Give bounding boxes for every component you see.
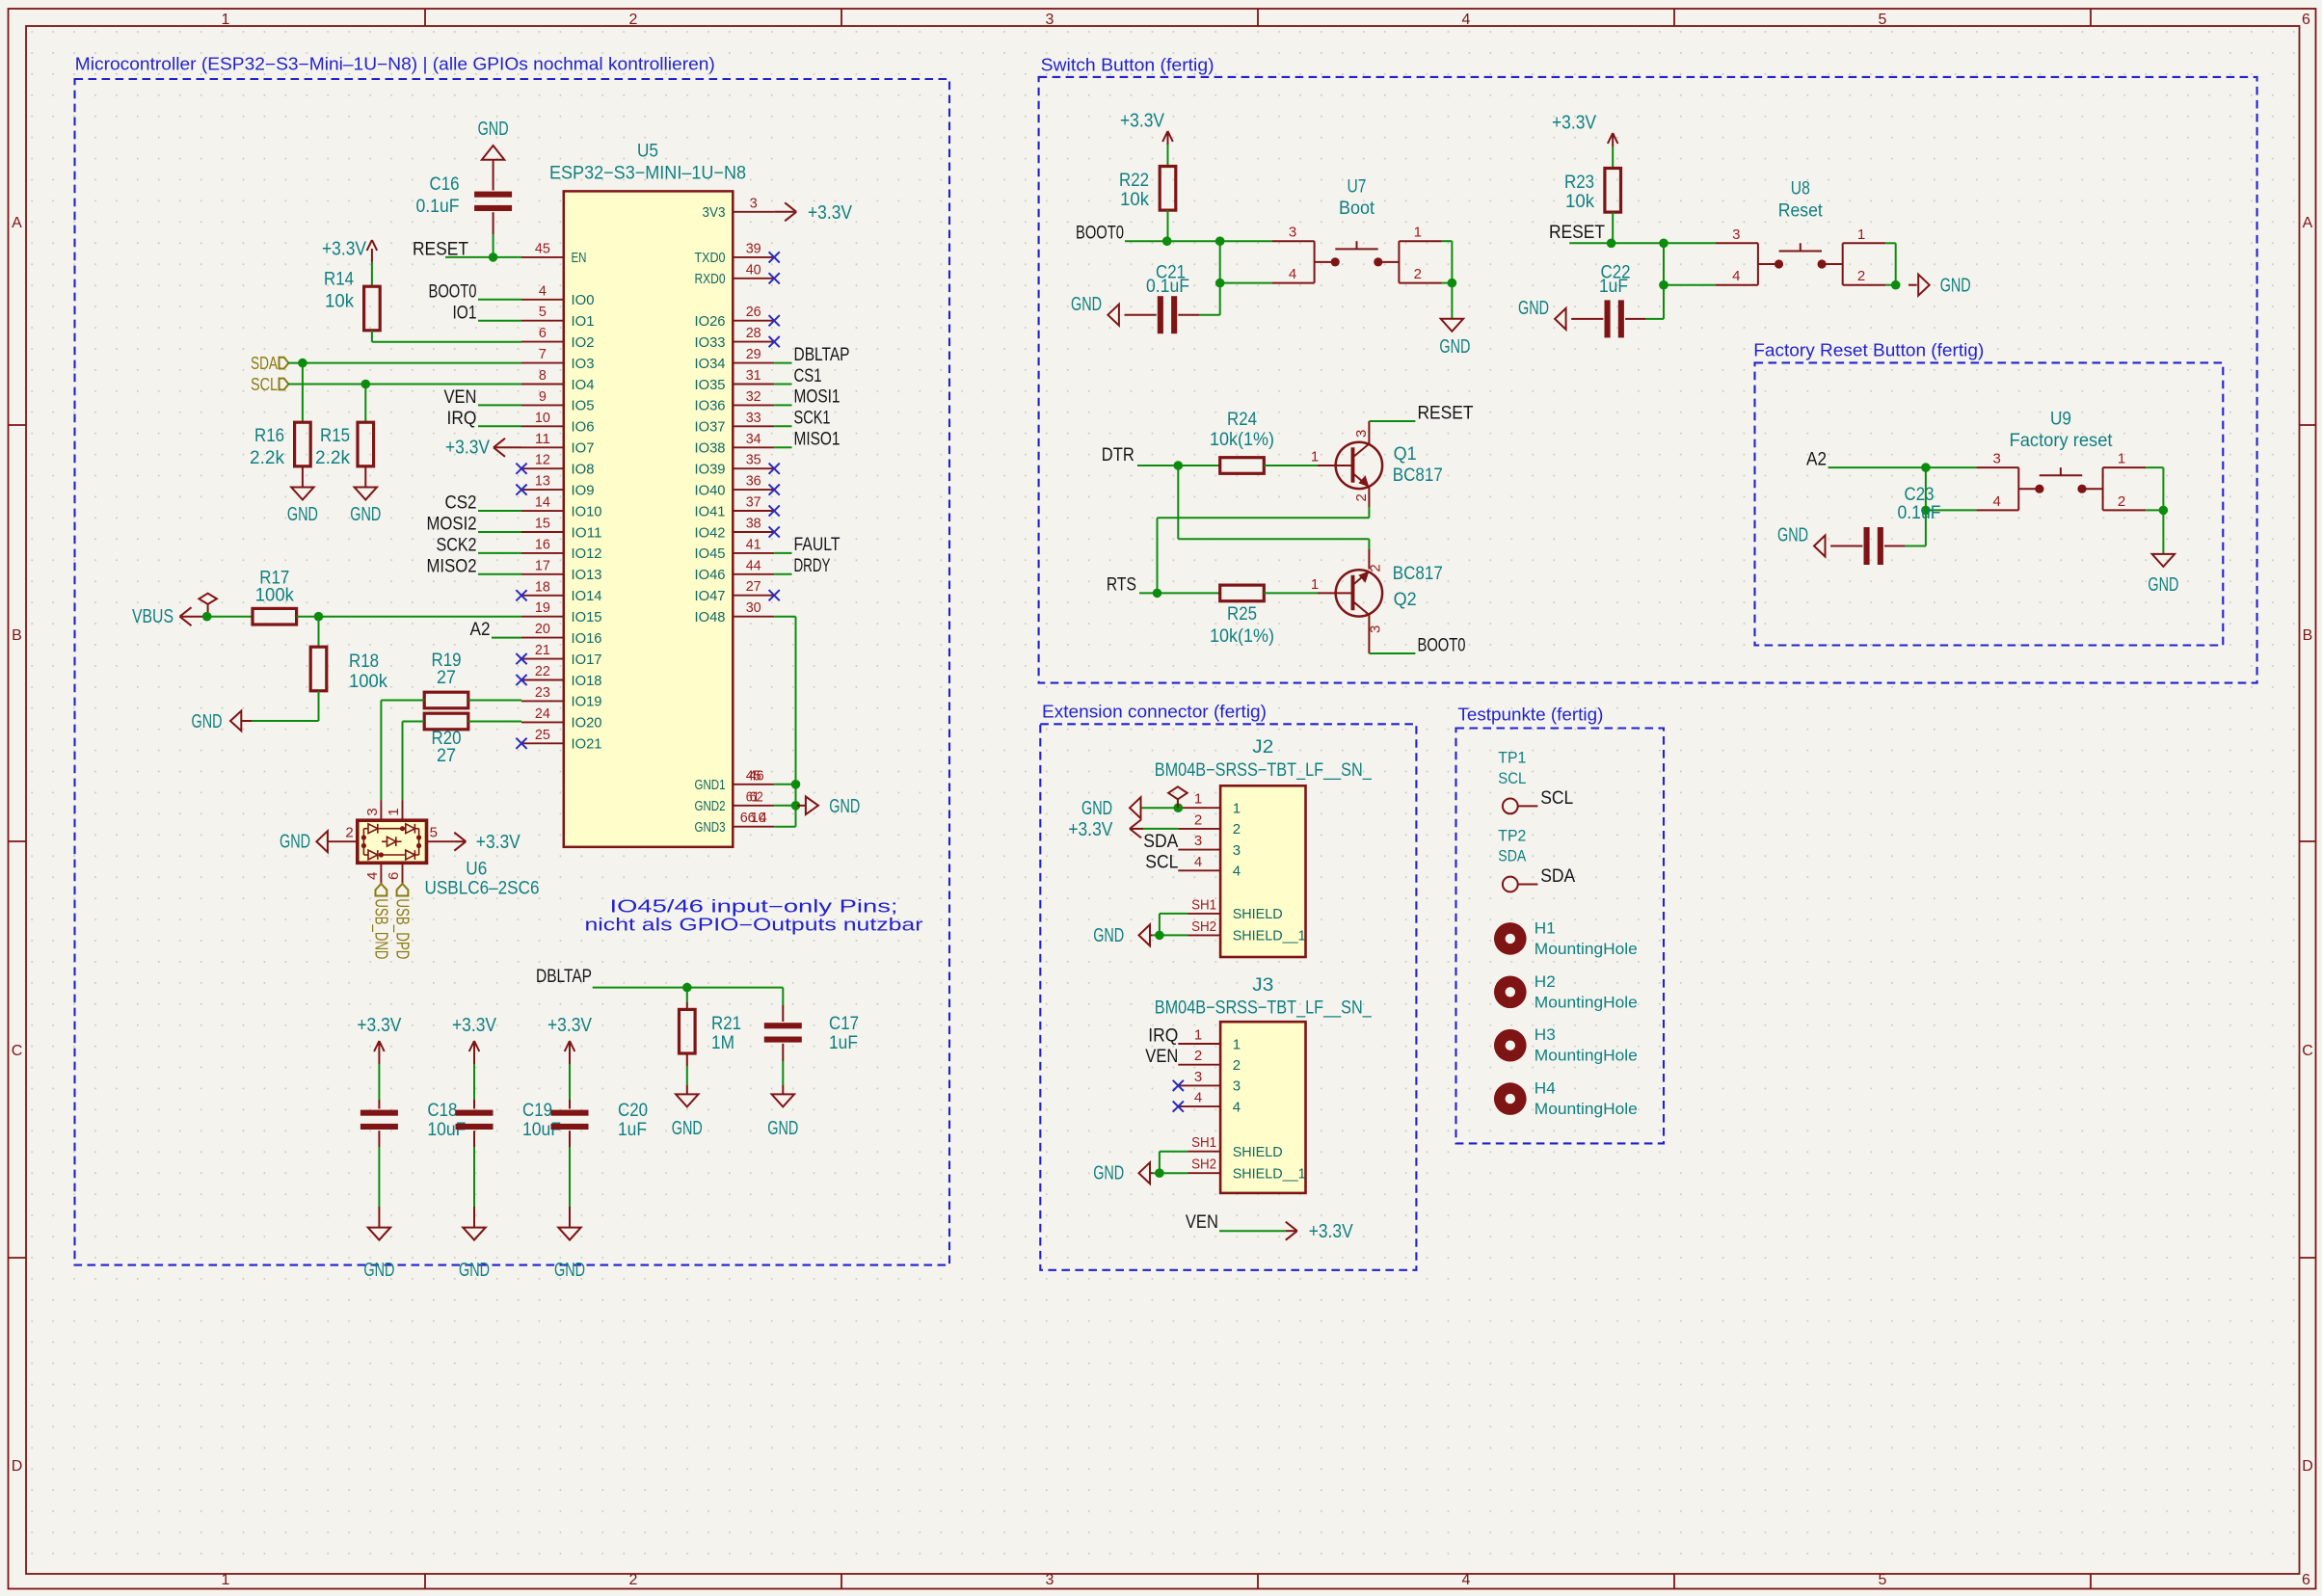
- svg-text:IO21: IO21: [572, 736, 602, 753]
- svg-text:3: 3: [364, 808, 381, 815]
- svg-text:DRDY: DRDY: [794, 556, 831, 576]
- svg-text:MountingHole: MountingHole: [1535, 1100, 1638, 1118]
- svg-text:21: 21: [535, 642, 550, 658]
- svg-text:GND: GND: [672, 1118, 703, 1139]
- svg-text:GND: GND: [1071, 294, 1102, 315]
- svg-text:USBLC6‒2SC6: USBLC6‒2SC6: [425, 879, 540, 899]
- svg-text:8: 8: [539, 367, 547, 384]
- svg-text:GND: GND: [280, 832, 310, 853]
- svg-text:CS2: CS2: [445, 493, 477, 514]
- svg-text:IRQ: IRQ: [1148, 1025, 1178, 1046]
- svg-text:19: 19: [535, 599, 550, 616]
- svg-text:3: 3: [1993, 451, 2001, 467]
- svg-text:RESET: RESET: [1549, 223, 1605, 243]
- svg-text:41: 41: [746, 536, 761, 552]
- svg-text:1: 1: [1857, 226, 1865, 243]
- svg-text:IO39: IO39: [695, 462, 726, 478]
- svg-text:33: 33: [746, 410, 761, 426]
- svg-text:10k(1%): 10k(1%): [1210, 430, 1274, 450]
- svg-text:IO16: IO16: [572, 630, 602, 647]
- svg-text:H3: H3: [1535, 1025, 1556, 1044]
- svg-text:13: 13: [535, 473, 550, 490]
- svg-text:R15: R15: [320, 426, 350, 446]
- svg-text:Extension connector (fertig): Extension connector (fertig): [1042, 703, 1267, 722]
- svg-text:1: 1: [1414, 225, 1422, 241]
- svg-text:10uF: 10uF: [522, 1120, 561, 1140]
- svg-text:IO18: IO18: [572, 673, 602, 689]
- svg-text:Factory reset: Factory reset: [2010, 431, 2114, 451]
- svg-text:GND: GND: [767, 1118, 798, 1139]
- svg-text:IO20: IO20: [572, 715, 602, 731]
- svg-text:R22: R22: [1119, 171, 1149, 191]
- svg-text:4: 4: [1289, 266, 1296, 282]
- svg-text:BC817: BC817: [1393, 465, 1443, 486]
- svg-text:10uF: 10uF: [427, 1120, 466, 1140]
- svg-text:3: 3: [1194, 833, 1202, 849]
- svg-text:R24: R24: [1227, 410, 1257, 430]
- svg-text:SCL: SCL: [1540, 788, 1573, 809]
- svg-text:BOOT0: BOOT0: [429, 281, 477, 302]
- svg-text:37: 37: [746, 494, 761, 511]
- svg-text:2: 2: [1233, 821, 1241, 838]
- svg-text:10: 10: [535, 410, 550, 426]
- svg-text:MISO1: MISO1: [794, 430, 841, 450]
- svg-text:TP1: TP1: [1498, 749, 1526, 767]
- svg-text:2: 2: [2118, 493, 2125, 510]
- svg-text:C23: C23: [1905, 485, 1935, 505]
- svg-text:6: 6: [539, 325, 547, 341]
- svg-text:IO13: IO13: [572, 567, 602, 583]
- svg-text:6: 6: [386, 872, 402, 880]
- svg-text:SH2: SH2: [1191, 918, 1216, 935]
- svg-text:BC817: BC817: [1393, 564, 1443, 584]
- svg-text:A2: A2: [470, 620, 491, 640]
- svg-text:IO8: IO8: [572, 462, 595, 478]
- svg-text:U6: U6: [466, 860, 487, 880]
- svg-text:SCL: SCL: [1145, 853, 1178, 873]
- svg-text:GND1: GND1: [695, 777, 726, 793]
- svg-text:10k: 10k: [325, 292, 354, 312]
- svg-text:5: 5: [430, 825, 438, 841]
- svg-text:34: 34: [746, 431, 761, 447]
- svg-text:FAULT: FAULT: [794, 535, 841, 555]
- svg-text:R16: R16: [254, 426, 284, 446]
- svg-text:1: 1: [222, 1572, 230, 1588]
- svg-text:0.1uF: 0.1uF: [416, 197, 460, 217]
- svg-text:GND: GND: [192, 711, 223, 732]
- svg-text:2: 2: [1353, 493, 1370, 501]
- svg-text:C16: C16: [430, 174, 460, 195]
- svg-text:2: 2: [1368, 564, 1384, 572]
- svg-text:12: 12: [535, 452, 550, 468]
- svg-text:GND: GND: [1777, 525, 1808, 546]
- svg-text:31: 31: [746, 367, 761, 384]
- svg-text:3: 3: [750, 195, 758, 211]
- svg-text:Q1: Q1: [1394, 444, 1417, 465]
- svg-text:DTR: DTR: [1102, 445, 1134, 465]
- svg-text:62: 62: [750, 788, 763, 805]
- svg-text:+3.3V: +3.3V: [445, 437, 491, 458]
- svg-text:10k(1%): 10k(1%): [1210, 626, 1274, 647]
- svg-text:GND: GND: [363, 1260, 394, 1281]
- svg-text:15: 15: [535, 516, 550, 532]
- svg-text:4: 4: [364, 872, 381, 880]
- svg-text:TP2: TP2: [1498, 826, 1526, 844]
- svg-text:IO47: IO47: [695, 588, 726, 604]
- svg-text:R23: R23: [1564, 173, 1594, 193]
- svg-text:1: 1: [1311, 576, 1319, 593]
- svg-text:4: 4: [539, 282, 547, 299]
- svg-text:Boot: Boot: [1339, 199, 1375, 219]
- svg-text:14: 14: [535, 494, 550, 511]
- svg-text:SHIELD__1: SHIELD__1: [1233, 928, 1306, 944]
- svg-text:U7: U7: [1348, 176, 1367, 197]
- svg-text:Switch Button (fertig): Switch Button (fertig): [1041, 56, 1214, 75]
- svg-text:IO1: IO1: [453, 303, 477, 323]
- svg-text:2: 2: [1194, 811, 1202, 828]
- svg-text:2.2k: 2.2k: [315, 448, 350, 468]
- svg-text:0.1uF: 0.1uF: [1898, 503, 1941, 523]
- svg-text:4: 4: [1233, 1099, 1241, 1115]
- svg-text:1: 1: [222, 12, 230, 28]
- svg-text:C19: C19: [522, 1101, 552, 1121]
- svg-text:Factory Reset Button (fertig): Factory Reset Button (fertig): [1753, 341, 1984, 360]
- svg-text:GND: GND: [1940, 276, 1971, 297]
- svg-text:4: 4: [1462, 1572, 1471, 1588]
- svg-text:+3.3V: +3.3V: [322, 239, 367, 260]
- svg-text:44: 44: [746, 557, 761, 573]
- svg-text:IO10: IO10: [572, 503, 602, 519]
- svg-text:GND: GND: [1093, 1163, 1124, 1184]
- svg-text:IO40: IO40: [695, 482, 726, 498]
- svg-text:nicht als GPIO−Outputs nutzbar: nicht als GPIO−Outputs nutzbar: [585, 916, 923, 935]
- svg-text:C18: C18: [427, 1101, 457, 1121]
- svg-text:C17: C17: [829, 1014, 859, 1034]
- svg-text:4: 4: [1233, 864, 1241, 880]
- svg-text:9: 9: [539, 388, 547, 405]
- svg-text:IO48: IO48: [695, 609, 726, 625]
- svg-text:GND: GND: [478, 119, 509, 140]
- svg-text:IO17: IO17: [572, 652, 602, 668]
- svg-text:D: D: [2302, 1458, 2313, 1475]
- svg-text:IRQ: IRQ: [447, 409, 477, 429]
- svg-text:IO14: IO14: [572, 588, 602, 604]
- svg-text:MountingHole: MountingHole: [1535, 940, 1638, 958]
- svg-text:27: 27: [437, 668, 456, 688]
- svg-text:H2: H2: [1535, 972, 1556, 991]
- svg-text:100k: 100k: [349, 672, 387, 692]
- svg-text:6: 6: [2302, 12, 2310, 28]
- svg-text:+3.3V: +3.3V: [476, 832, 521, 853]
- svg-text:RESET: RESET: [1418, 404, 1474, 424]
- svg-text:IO42: IO42: [695, 524, 726, 541]
- svg-text:1: 1: [1194, 791, 1202, 808]
- svg-text:5: 5: [1879, 1572, 1887, 1588]
- svg-text:2.2k: 2.2k: [250, 448, 284, 468]
- svg-text:BM04B−SRSS−TBT_LF__SN_: BM04B−SRSS−TBT_LF__SN_: [1155, 998, 1372, 1019]
- svg-text:MountingHole: MountingHole: [1535, 993, 1638, 1011]
- svg-text:+3.3V: +3.3V: [357, 1015, 402, 1036]
- svg-text:SDA: SDA: [251, 354, 278, 373]
- svg-text:IO1: IO1: [572, 313, 595, 330]
- svg-text:3: 3: [1368, 625, 1384, 633]
- svg-text:GND: GND: [554, 1260, 585, 1281]
- svg-text:39: 39: [746, 240, 761, 256]
- svg-text:1uF: 1uF: [829, 1033, 858, 1053]
- svg-text:R18: R18: [349, 652, 379, 672]
- svg-text:2: 2: [1194, 1048, 1202, 1064]
- svg-text:IO0: IO0: [572, 292, 595, 308]
- svg-text:D: D: [12, 1458, 23, 1475]
- svg-text:USB_DPD: USB_DPD: [392, 898, 413, 959]
- svg-text:RXD0: RXD0: [695, 271, 726, 287]
- svg-text:100k: 100k: [255, 586, 294, 606]
- svg-text:GND: GND: [1081, 798, 1112, 819]
- svg-text:IO6: IO6: [572, 419, 595, 436]
- svg-text:32: 32: [746, 388, 761, 405]
- svg-text:1: 1: [386, 808, 402, 815]
- svg-text:IO37: IO37: [695, 419, 726, 436]
- svg-text:SH2: SH2: [1191, 1157, 1216, 1173]
- svg-text:IO38: IO38: [695, 440, 726, 457]
- svg-text:U8: U8: [1791, 178, 1810, 199]
- svg-text:4: 4: [1194, 1090, 1202, 1106]
- svg-text:MOSI1: MOSI1: [794, 387, 841, 408]
- svg-text:+3.3V: +3.3V: [808, 202, 853, 224]
- svg-text:U5: U5: [637, 142, 658, 162]
- svg-text:MISO2: MISO2: [427, 556, 477, 576]
- svg-text:GND: GND: [1518, 298, 1549, 319]
- svg-text:IO15: IO15: [572, 609, 602, 625]
- svg-text:7: 7: [539, 346, 547, 362]
- svg-text:IO7: IO7: [572, 440, 595, 457]
- svg-text:VEN: VEN: [444, 387, 477, 408]
- svg-text:H4: H4: [1535, 1079, 1556, 1098]
- svg-text:Q2: Q2: [1394, 590, 1417, 610]
- svg-text:C: C: [2302, 1043, 2313, 1059]
- svg-text:IO26: IO26: [695, 313, 726, 330]
- svg-text:6: 6: [2302, 1572, 2310, 1588]
- svg-text:IO9: IO9: [572, 482, 595, 498]
- svg-text:MOSI2: MOSI2: [427, 515, 477, 535]
- svg-text:Reset: Reset: [1778, 200, 1824, 221]
- svg-text:26: 26: [746, 304, 761, 320]
- svg-text:USB_DND: USB_DND: [371, 898, 391, 959]
- svg-text:IO11: IO11: [572, 524, 602, 541]
- svg-text:R14: R14: [324, 270, 354, 290]
- svg-text:3: 3: [1233, 842, 1241, 859]
- svg-text:IO45: IO45: [695, 545, 726, 562]
- svg-text:C20: C20: [618, 1101, 648, 1121]
- svg-text:SDA: SDA: [1143, 832, 1178, 852]
- svg-text:24: 24: [535, 705, 550, 722]
- svg-text:4: 4: [1194, 854, 1202, 870]
- svg-text:17: 17: [535, 557, 550, 573]
- svg-text:B: B: [2303, 627, 2313, 644]
- svg-text:1: 1: [1194, 1027, 1202, 1044]
- svg-text:3: 3: [1233, 1078, 1241, 1095]
- svg-text:IO19: IO19: [572, 694, 602, 710]
- svg-text:A2: A2: [1806, 449, 1827, 469]
- svg-text:2: 2: [629, 1572, 638, 1588]
- svg-text:2: 2: [629, 12, 638, 28]
- svg-text:0.1uF: 0.1uF: [1146, 277, 1189, 297]
- svg-text:3: 3: [1046, 12, 1054, 28]
- svg-text:4: 4: [1732, 268, 1740, 284]
- svg-text:SHIELD__1: SHIELD__1: [1233, 1166, 1306, 1183]
- svg-text:CS1: CS1: [794, 366, 822, 386]
- svg-text:+3.3V: +3.3V: [1309, 1221, 1354, 1242]
- svg-text:SHIELD: SHIELD: [1233, 906, 1283, 922]
- svg-text:B: B: [12, 627, 22, 644]
- svg-text:27: 27: [746, 578, 761, 595]
- svg-text:A: A: [2303, 215, 2313, 231]
- svg-text:IO5: IO5: [572, 398, 595, 414]
- svg-text:J3: J3: [1252, 975, 1273, 996]
- svg-text:4: 4: [760, 810, 767, 826]
- svg-text:IO34: IO34: [695, 356, 726, 372]
- svg-text:Testpunkte (fertig): Testpunkte (fertig): [1457, 705, 1603, 725]
- svg-text:IO45/46 input−only Pins;: IO45/46 input−only Pins;: [610, 897, 898, 917]
- svg-text:BM04B−SRSS−TBT_LF__SN_: BM04B−SRSS−TBT_LF__SN_: [1155, 760, 1372, 781]
- svg-text:3V3: 3V3: [703, 204, 726, 221]
- svg-text:2: 2: [1857, 268, 1865, 284]
- svg-text:DBLTAP: DBLTAP: [794, 345, 850, 365]
- svg-text:SH1: SH1: [1191, 1134, 1216, 1151]
- svg-text:35: 35: [746, 452, 761, 468]
- svg-text:VBUS: VBUS: [132, 606, 173, 627]
- svg-text:20: 20: [535, 621, 550, 637]
- svg-text:3: 3: [1194, 1069, 1202, 1085]
- svg-text:IO35: IO35: [695, 377, 726, 393]
- svg-text:Microcontroller (ESP32−S3−Mini: Microcontroller (ESP32−S3−Mini‒1U−N8) | …: [75, 55, 715, 74]
- svg-text:RTS: RTS: [1107, 575, 1136, 596]
- svg-text:46: 46: [749, 767, 764, 784]
- svg-text:GND: GND: [2148, 574, 2178, 596]
- svg-text:10k: 10k: [1120, 190, 1149, 210]
- svg-text:SCL: SCL: [251, 375, 278, 394]
- svg-text:10k: 10k: [1565, 192, 1594, 212]
- svg-text:GND: GND: [1093, 925, 1124, 946]
- svg-text:BOOT0: BOOT0: [1418, 636, 1466, 656]
- svg-text:SHIELD: SHIELD: [1233, 1144, 1283, 1160]
- svg-text:SH1: SH1: [1191, 896, 1216, 913]
- svg-text:+3.3V: +3.3V: [1068, 819, 1113, 840]
- svg-text:2: 2: [1233, 1057, 1241, 1074]
- svg-text:3: 3: [1289, 225, 1296, 241]
- svg-text:1: 1: [1233, 1036, 1241, 1052]
- svg-text:EN: EN: [572, 250, 587, 266]
- svg-text:TXD0: TXD0: [695, 250, 726, 266]
- svg-text:IO36: IO36: [695, 398, 726, 414]
- svg-text:28: 28: [746, 325, 761, 341]
- svg-text:23: 23: [535, 684, 550, 701]
- svg-text:BOOT0: BOOT0: [1076, 224, 1124, 244]
- svg-text:3: 3: [1353, 430, 1370, 438]
- svg-text:22: 22: [535, 663, 550, 679]
- svg-text:VEN: VEN: [1145, 1047, 1178, 1067]
- svg-text:GND: GND: [1439, 336, 1470, 358]
- svg-text:+3.3V: +3.3V: [1120, 111, 1165, 132]
- svg-text:+3.3V: +3.3V: [547, 1015, 593, 1036]
- svg-text:36: 36: [746, 473, 761, 490]
- svg-text:GND: GND: [287, 504, 318, 525]
- svg-text:40: 40: [746, 261, 761, 278]
- svg-text:GND: GND: [459, 1260, 490, 1281]
- svg-text:4: 4: [1462, 12, 1471, 28]
- svg-text:IO2: IO2: [572, 334, 595, 351]
- svg-text:1: 1: [2118, 451, 2125, 467]
- svg-text:25: 25: [535, 727, 550, 743]
- svg-text:R25: R25: [1227, 604, 1257, 625]
- svg-text:IO3: IO3: [572, 356, 595, 372]
- svg-text:SDA: SDA: [1498, 847, 1527, 865]
- svg-text:MountingHole: MountingHole: [1535, 1047, 1638, 1065]
- svg-text:38: 38: [746, 516, 761, 532]
- svg-text:IO4: IO4: [572, 377, 595, 393]
- svg-text:5: 5: [1879, 12, 1887, 28]
- svg-text:SCK1: SCK1: [794, 409, 831, 429]
- svg-text:5: 5: [539, 304, 547, 320]
- svg-text:18: 18: [535, 578, 550, 595]
- svg-text:C: C: [12, 1043, 23, 1059]
- svg-text:DBLTAP: DBLTAP: [536, 967, 592, 987]
- svg-text:30: 30: [746, 599, 761, 616]
- svg-text:4: 4: [1993, 493, 2001, 510]
- svg-text:J2: J2: [1252, 737, 1273, 758]
- svg-text:SCK2: SCK2: [437, 535, 477, 555]
- svg-text:16: 16: [535, 536, 550, 552]
- svg-text:IO12: IO12: [572, 545, 602, 562]
- svg-text:GND: GND: [829, 796, 860, 817]
- svg-text:IO46: IO46: [695, 567, 726, 583]
- svg-text:VEN: VEN: [1186, 1212, 1218, 1233]
- svg-text:A: A: [12, 215, 22, 231]
- svg-text:GND: GND: [350, 504, 381, 525]
- svg-text:+3.3V: +3.3V: [1552, 113, 1597, 134]
- svg-text:2: 2: [1414, 266, 1422, 282]
- svg-text:2: 2: [345, 825, 353, 841]
- svg-text:3: 3: [1732, 226, 1740, 243]
- svg-text:1M: 1M: [711, 1033, 734, 1053]
- svg-text:27: 27: [437, 746, 456, 766]
- svg-text:3: 3: [1046, 1572, 1054, 1588]
- svg-text:U9: U9: [2050, 410, 2071, 430]
- svg-text:GND2: GND2: [695, 798, 726, 814]
- svg-text:29: 29: [746, 346, 761, 362]
- svg-text:SCL: SCL: [1498, 769, 1526, 787]
- svg-text:+3.3V: +3.3V: [452, 1015, 497, 1036]
- svg-text:1uF: 1uF: [1599, 277, 1628, 297]
- svg-text:1uF: 1uF: [618, 1120, 647, 1140]
- svg-text:1: 1: [1311, 449, 1319, 465]
- svg-text:H1: H1: [1535, 918, 1556, 937]
- svg-text:11: 11: [535, 431, 550, 447]
- svg-text:SDA: SDA: [1540, 866, 1575, 887]
- svg-text:1: 1: [1233, 801, 1241, 817]
- svg-text:GND3: GND3: [695, 819, 726, 836]
- svg-text:IO41: IO41: [695, 503, 726, 519]
- svg-text:IO33: IO33: [695, 334, 726, 351]
- svg-text:45: 45: [535, 240, 550, 256]
- svg-text:R21: R21: [711, 1014, 741, 1034]
- svg-text:ESP32−S3−MINI‒1U−N8: ESP32−S3−MINI‒1U−N8: [549, 164, 746, 184]
